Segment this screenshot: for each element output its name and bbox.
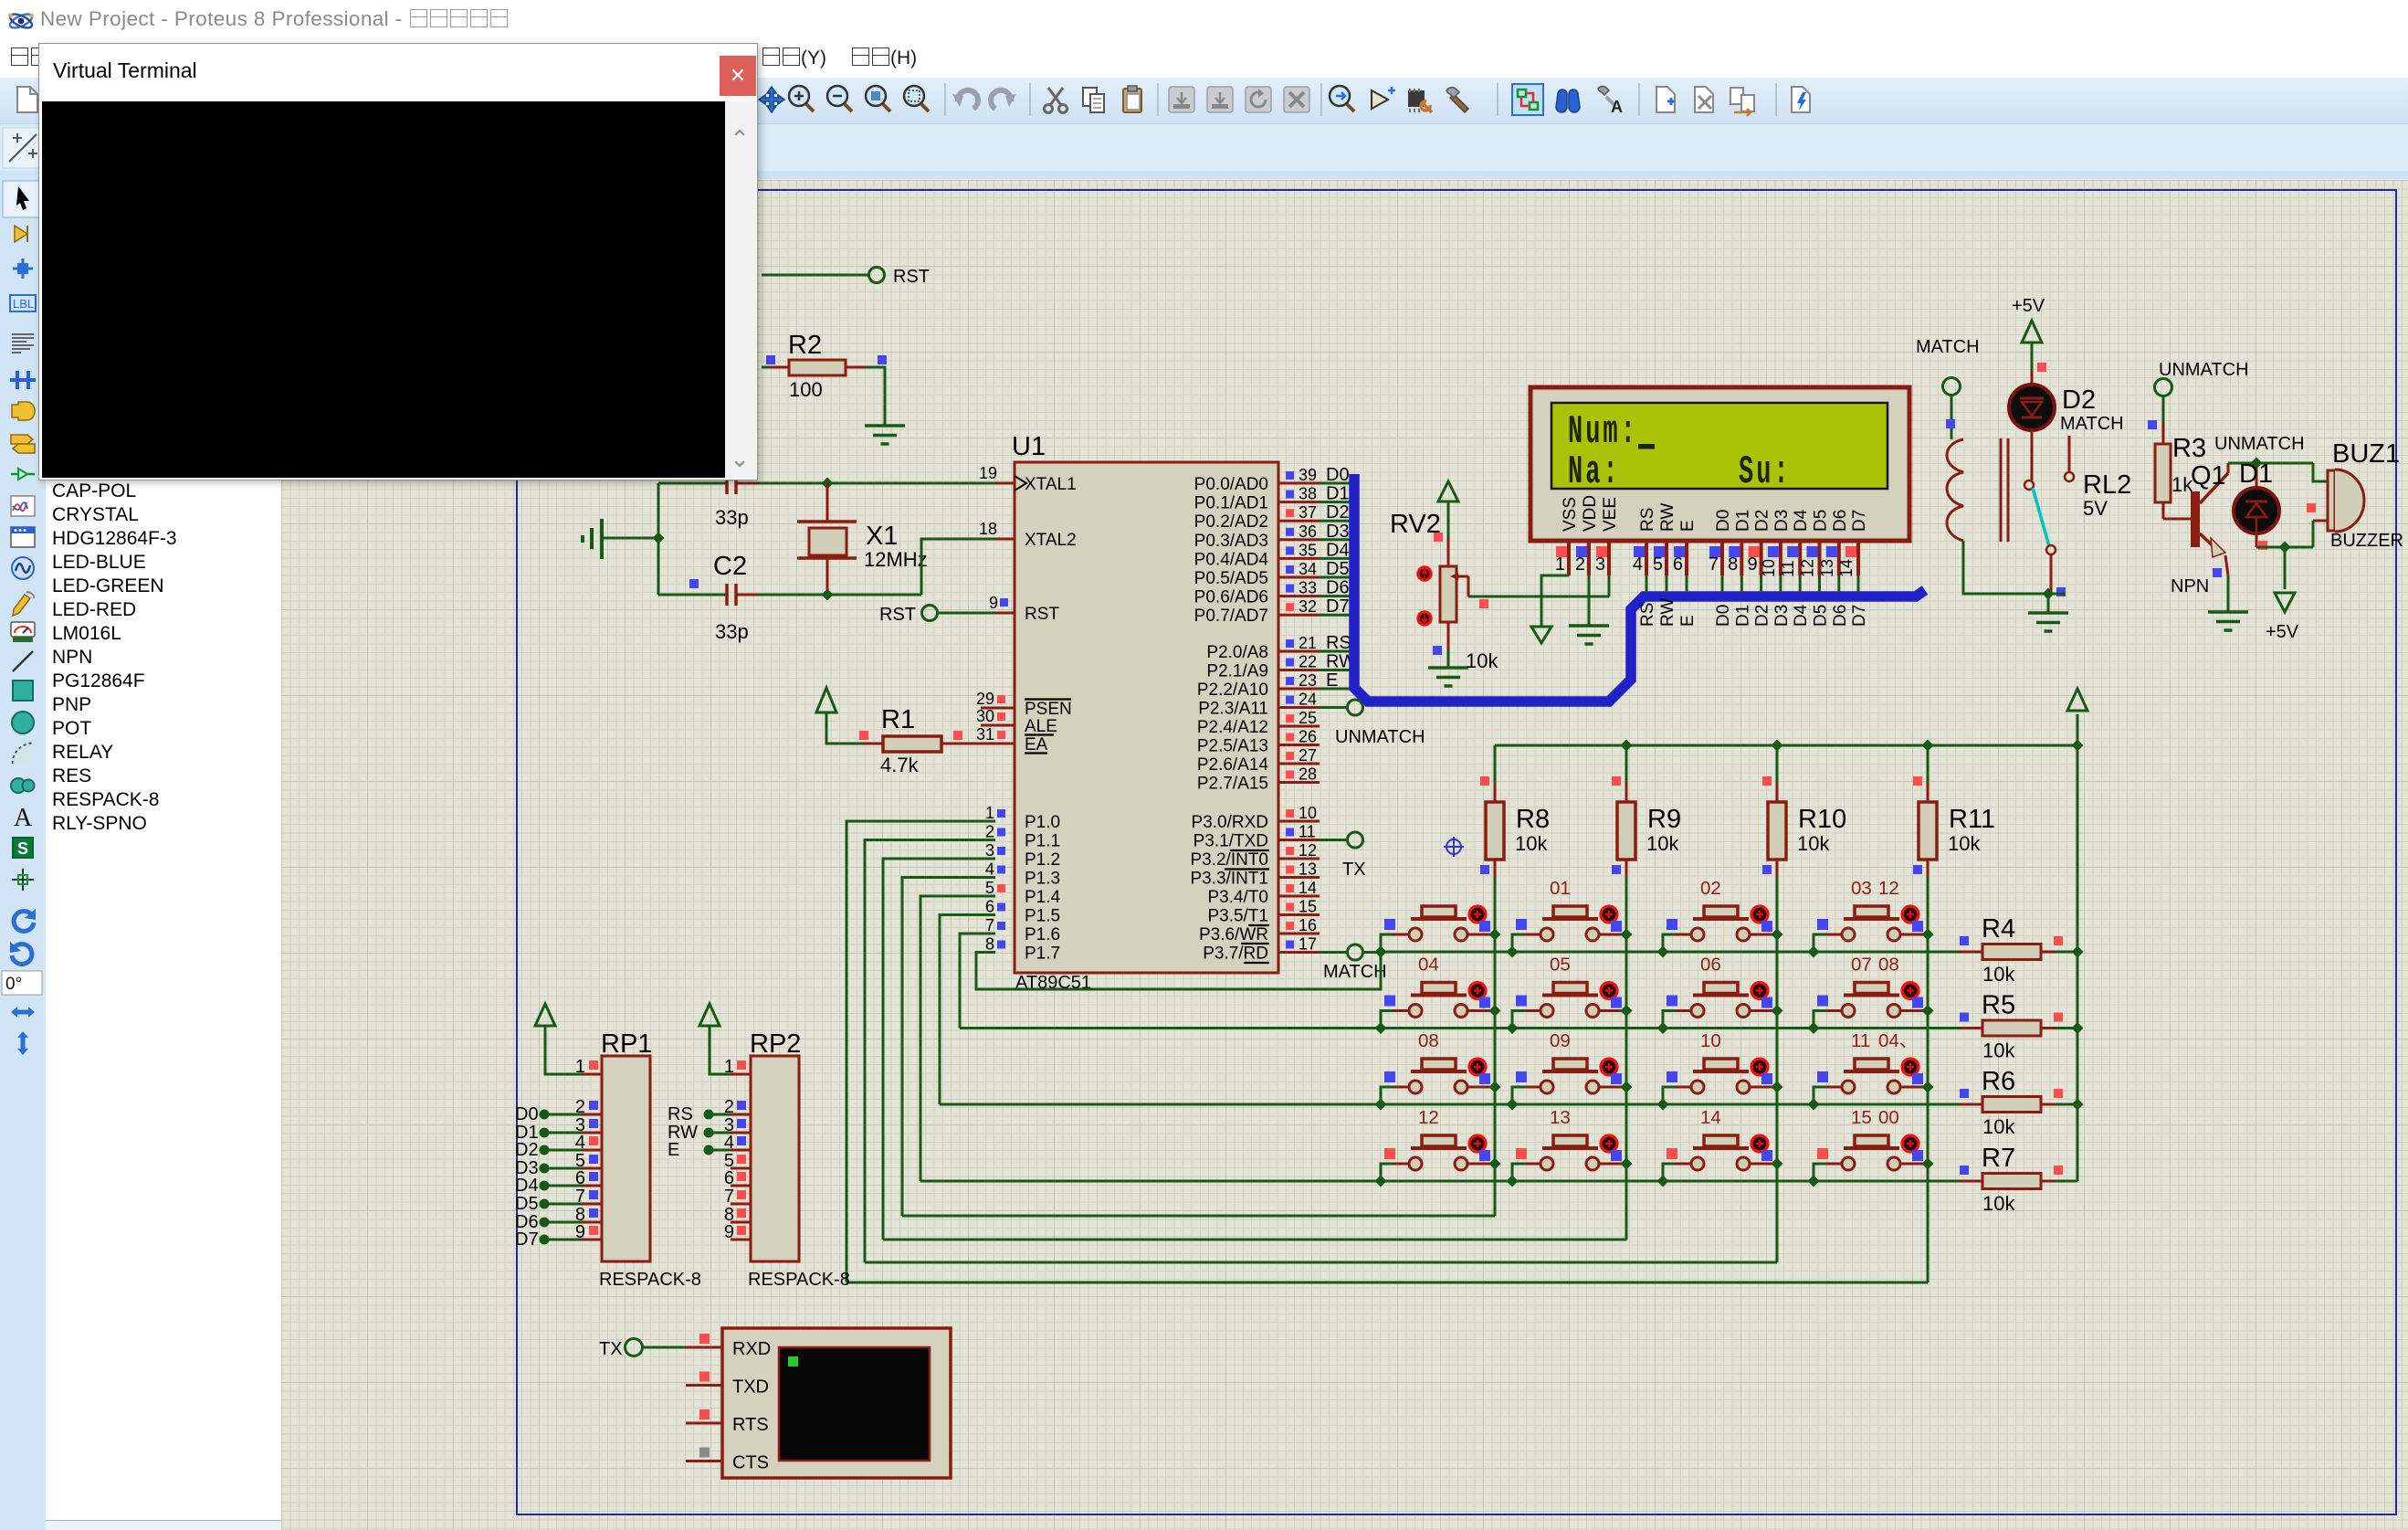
wire D2 to switch	[2031, 430, 2034, 480]
svg-text:D2: D2	[1753, 510, 1772, 532]
wire UNMATCH to R3	[2162, 396, 2165, 423]
virtual terminal screen	[779, 1347, 930, 1461]
svg-text:4.7k: 4.7k	[880, 754, 920, 776]
svg-text:05: 05	[1550, 955, 1571, 976]
svg-text:100: 100	[789, 378, 823, 401]
row wires	[1381, 951, 1960, 954]
svg-text:2: 2	[1575, 554, 1585, 575]
svg-text:13: 13	[1550, 1107, 1571, 1128]
svg-text:CTS: CTS	[732, 1453, 769, 1473]
svg-text:C2: C2	[713, 552, 747, 581]
svg-text:P3.3/INT1: P3.3/INT1	[1190, 870, 1268, 889]
wire P1.1 to column 3	[865, 840, 995, 1263]
svg-text:9: 9	[1747, 554, 1757, 575]
svg-text:TXD: TXD	[732, 1377, 769, 1398]
svg-text:X1: X1	[866, 522, 898, 551]
svg-text:10k: 10k	[1466, 649, 1498, 672]
svg-text:P2.6/A14: P2.6/A14	[1197, 755, 1269, 775]
potentiometer RV2	[1447, 538, 1450, 566]
svg-text:5: 5	[985, 879, 994, 897]
wire R2 right to ground	[846, 366, 867, 369]
svg-text:RS: RS	[1638, 603, 1657, 627]
svg-text:5: 5	[1653, 554, 1663, 575]
svg-text:D7: D7	[1850, 605, 1869, 627]
node r3c2	[1507, 1099, 1519, 1111]
svg-text:D4: D4	[1792, 604, 1811, 627]
wire R3 to Q1 base	[2162, 502, 2165, 519]
IC U1 AT89C51 body	[1015, 462, 1278, 973]
svg-text:11: 11	[1851, 1030, 1870, 1051]
button SW r3c4	[1814, 1059, 1928, 1104]
svg-text:ALE: ALE	[1025, 717, 1057, 736]
button SW r1c2	[1512, 906, 1626, 952]
column return wires	[902, 1215, 1495, 1218]
terminal TX	[1348, 832, 1363, 848]
svg-text:24: 24	[1299, 691, 1317, 709]
svg-text:10k: 10k	[1515, 832, 1548, 855]
svg-text:Q1: Q1	[2191, 461, 2226, 491]
svg-text:01: 01	[1550, 878, 1571, 899]
svg-text:A: A	[14, 804, 33, 832]
svg-text:5V: 5V	[2083, 497, 2108, 520]
wire Q1 emitter to ground	[2227, 575, 2230, 612]
button SW r2c4	[1814, 983, 1928, 1029]
resistor pack RP2 RESPACK-8	[751, 1056, 799, 1261]
resistor R5 10k	[1960, 1027, 1982, 1029]
capacitor C1 33p (top)	[658, 482, 727, 485]
svg-text:R10: R10	[1798, 805, 1846, 834]
svg-text:D7: D7	[515, 1229, 539, 1250]
svg-text:4: 4	[985, 860, 994, 879]
svg-text:33p: 33p	[715, 506, 749, 529]
wire P1.3 to column 1	[902, 878, 995, 1217]
node r1c1	[1375, 946, 1387, 958]
svg-text:XTAL1: XTAL1	[1025, 475, 1077, 494]
svg-text:P1.6: P1.6	[1025, 925, 1060, 944]
power rail top keypad	[1495, 744, 2077, 747]
svg-text:P0.5/AD5: P0.5/AD5	[1194, 569, 1268, 588]
svg-text:RW: RW	[1658, 503, 1677, 532]
resistor pack RP1 RESPACK-8	[602, 1056, 650, 1261]
node ground rail	[653, 533, 665, 544]
svg-text:D6: D6	[1831, 605, 1850, 627]
wire RST net	[762, 274, 868, 277]
node r1c2	[1507, 946, 1519, 958]
svg-text:P1.1: P1.1	[1025, 832, 1060, 851]
svg-text:P3.1/TXD: P3.1/TXD	[1193, 832, 1268, 851]
ground left (sideways)	[600, 519, 604, 559]
wire coil bottom	[1963, 541, 2048, 594]
svg-text:23: 23	[1299, 671, 1317, 690]
power +5V down arrow (D1)	[2275, 593, 2295, 612]
wire stubs P2 to bus	[1320, 650, 1350, 653]
svg-text:R2: R2	[788, 331, 822, 360]
svg-text:34: 34	[1299, 560, 1317, 578]
node r2c1	[1375, 1022, 1387, 1034]
button SW r2c3	[1663, 983, 1777, 1029]
svg-text:R5: R5	[1982, 991, 2015, 1020]
svg-text:8: 8	[1728, 554, 1738, 575]
svg-text:P1.3: P1.3	[1025, 870, 1060, 889]
svg-text:10k: 10k	[1982, 1115, 2015, 1138]
node r2c2	[1507, 1022, 1519, 1034]
crystal X1	[826, 483, 829, 522]
button SW r3c3	[1663, 1059, 1777, 1104]
svg-text:U1: U1	[1012, 432, 1046, 461]
svg-text:7: 7	[985, 916, 994, 934]
svg-text:RS: RS	[1638, 508, 1657, 532]
power +5V arrow (RV2)	[1438, 481, 1458, 501]
svg-text:RP2: RP2	[750, 1029, 801, 1059]
svg-text:10: 10	[1299, 804, 1317, 822]
svg-text:P3.7/RD: P3.7/RD	[1203, 944, 1268, 964]
svg-text:D2: D2	[1753, 605, 1772, 627]
pin 30 lead ALE	[981, 724, 1015, 727]
svg-text:9: 9	[989, 594, 998, 612]
svg-text:E: E	[1678, 615, 1698, 627]
node r4c2	[1507, 1176, 1519, 1187]
button SW r1c4	[1814, 906, 1928, 952]
svg-text:TX: TX	[1342, 860, 1366, 880]
node MATCH row	[1375, 946, 1387, 958]
terminal RST	[869, 268, 885, 283]
svg-text:36: 36	[1299, 522, 1317, 541]
svg-text:P3.6/WR: P3.6/WR	[1199, 925, 1268, 944]
svg-text:31: 31	[976, 725, 994, 744]
node r3c4	[1808, 1099, 1820, 1111]
LCD pin leads	[1567, 541, 1571, 575]
svg-text:04: 04	[1418, 955, 1439, 976]
wire VSS down	[1541, 575, 1569, 596]
svg-text:D2: D2	[2062, 385, 2096, 415]
node r2c3	[1657, 1022, 1669, 1034]
ground VDD	[1569, 624, 1609, 628]
svg-text:RESPACK-8: RESPACK-8	[599, 1270, 701, 1290]
power +5V arrow (RP1)	[535, 1004, 555, 1026]
svg-text:02: 02	[1700, 878, 1721, 899]
resistor R7 10k	[1960, 1180, 1982, 1183]
node r1c3	[1657, 946, 1669, 958]
svg-text:12: 12	[1418, 1107, 1439, 1128]
svg-text:07: 07	[1851, 955, 1872, 976]
pin 1 lead RP2	[731, 1073, 751, 1076]
svg-text:P0.2/AD2: P0.2/AD2	[1194, 512, 1268, 532]
wire wiper net	[1468, 596, 1609, 598]
node XTAL1 junction	[822, 478, 834, 490]
svg-text:E: E	[1678, 520, 1698, 532]
pin 1 lead RP1	[582, 1073, 602, 1076]
buzzer BUZ1	[2307, 503, 2316, 512]
svg-text:D5: D5	[515, 1194, 539, 1214]
svg-text:2: 2	[985, 823, 994, 841]
svg-text:R6: R6	[1982, 1067, 2015, 1096]
svg-text:18: 18	[979, 520, 997, 538]
ground RV2	[1428, 666, 1468, 670]
svg-text:P1.4: P1.4	[1025, 888, 1061, 907]
svg-text:R1: R1	[881, 705, 915, 734]
button SW r3c2	[1512, 1059, 1626, 1104]
svg-text:BUZZER: BUZZER	[2330, 531, 2403, 551]
svg-text:P3.2/INT0: P3.2/INT0	[1190, 850, 1268, 870]
svg-text:VEE: VEE	[1601, 497, 1620, 532]
svg-text:P2.0/A8: P2.0/A8	[1206, 643, 1268, 662]
button SW r2c1	[1381, 983, 1495, 1029]
LED D1	[2256, 467, 2258, 487]
svg-text:1: 1	[575, 1057, 585, 1077]
svg-text:12: 12	[1799, 559, 1817, 577]
svg-text:MATCH: MATCH	[2060, 414, 2124, 434]
svg-text:D5: D5	[1812, 605, 1831, 627]
node r3c1	[1375, 1099, 1387, 1111]
wire to XTAL2	[921, 539, 995, 595]
svg-text:A: A	[1611, 98, 1623, 116]
svg-text:30: 30	[976, 707, 994, 725]
svg-text:13: 13	[1818, 559, 1836, 577]
LCD pin squares	[1556, 546, 1567, 557]
svg-text:10k: 10k	[1948, 832, 1981, 855]
cursor crosshair	[1444, 837, 1464, 857]
svg-text:P1.5: P1.5	[1025, 907, 1060, 926]
svg-text:Na:: Na:	[1568, 449, 1621, 494]
wire R2 left	[762, 366, 769, 369]
svg-text:33p: 33p	[715, 620, 749, 643]
ground R2	[865, 424, 905, 427]
svg-text:RTS: RTS	[732, 1415, 769, 1435]
svg-text:P2.4/A12: P2.4/A12	[1197, 718, 1268, 737]
svg-text:RST: RST	[893, 267, 930, 287]
svg-text:TX: TX	[599, 1339, 623, 1359]
power rail right keypad	[2077, 745, 2079, 1181]
node r4c4	[1808, 1176, 1820, 1187]
resistor R1 4.7k	[863, 743, 883, 745]
button SW r4c2	[1512, 1135, 1626, 1181]
svg-text:RESPACK-8: RESPACK-8	[748, 1270, 850, 1290]
relay RL2 coil	[1947, 439, 1963, 541]
svg-text:D3: D3	[1772, 605, 1792, 627]
wire to +5V down arrow	[2284, 547, 2287, 589]
node r4c3	[1657, 1176, 1669, 1187]
svg-text:21: 21	[1299, 634, 1317, 652]
resistor R9 10k	[1625, 784, 1628, 802]
svg-text:12MHz: 12MHz	[864, 548, 928, 571]
svg-text:06: 06	[1700, 955, 1721, 976]
capacitor C2 33p (bottom)	[658, 594, 727, 596]
svg-text:RXD: RXD	[732, 1339, 771, 1359]
svg-text:22: 22	[1299, 653, 1317, 671]
svg-text:D6: D6	[1831, 510, 1850, 532]
svg-text:10k: 10k	[1646, 832, 1679, 855]
svg-text:P2.5/A13: P2.5/A13	[1197, 737, 1268, 756]
resistor R10 10k	[1776, 784, 1779, 802]
LCD screen	[1551, 403, 1887, 489]
svg-text:UNMATCH: UNMATCH	[2159, 360, 2249, 380]
svg-text:D7: D7	[1850, 510, 1869, 532]
svg-text:P3.5/T1: P3.5/T1	[1207, 907, 1268, 926]
svg-text:10: 10	[1700, 1030, 1721, 1051]
svg-text:28: 28	[1299, 765, 1317, 784]
svg-text:D0: D0	[1714, 605, 1733, 627]
node r4c1	[1375, 1176, 1387, 1187]
virtual terminal VT1 body	[722, 1328, 951, 1478]
svg-text:PSEN: PSEN	[1025, 700, 1072, 719]
svg-text:RS: RS	[668, 1104, 693, 1124]
wire P1.0 to column 4	[846, 821, 995, 1282]
svg-text:14: 14	[1837, 559, 1856, 577]
column wires	[1494, 745, 1497, 1216]
button SW r4c1	[1381, 1135, 1495, 1181]
svg-text:35: 35	[1299, 541, 1317, 559]
svg-text:LBL: LBL	[13, 297, 34, 311]
wire collector net	[2228, 462, 2313, 465]
wire pin11 to TX terminal	[1320, 839, 1348, 841]
svg-text:R3: R3	[2172, 434, 2206, 463]
pin stubs RP2 5-9	[731, 1167, 751, 1170]
svg-text:04、: 04、	[1878, 1030, 1918, 1051]
sheet border	[517, 190, 2396, 1514]
wire P1.5 to row 3	[940, 915, 995, 1105]
svg-text:P3.0/RXD: P3.0/RXD	[1192, 813, 1268, 832]
svg-text:17: 17	[1299, 935, 1317, 954]
resistor R6 10k	[1960, 1103, 1982, 1106]
terminal MATCH	[1348, 944, 1363, 960]
wire TX to RXD	[642, 1346, 686, 1349]
button SW r4c3	[1663, 1135, 1777, 1181]
LED D2	[2031, 370, 2034, 385]
wire P1.4 to row 4	[920, 896, 995, 1181]
svg-text:VDD: VDD	[1581, 495, 1600, 532]
wire P1.2 to column 2	[883, 859, 995, 1240]
svg-text:+5V: +5V	[2266, 622, 2299, 642]
svg-text:10: 10	[1760, 559, 1778, 577]
svg-text:MATCH: MATCH	[1323, 962, 1387, 982]
svg-text:BUZ1: BUZ1	[2332, 439, 2400, 469]
svg-text:37: 37	[1299, 503, 1317, 522]
node r1c4	[1808, 946, 1820, 958]
svg-text:UNMATCH: UNMATCH	[2214, 434, 2305, 454]
button SW r1c3	[1663, 906, 1777, 952]
power down arrow (VEE)	[1540, 596, 1543, 627]
svg-text:12: 12	[1878, 878, 1899, 899]
svg-text:09: 09	[1550, 1030, 1571, 1051]
svg-text:10k: 10k	[1982, 1192, 2015, 1215]
button SW r4c4	[1814, 1135, 1928, 1181]
svg-text:D4: D4	[1792, 509, 1811, 532]
svg-text:08: 08	[1418, 1030, 1439, 1051]
node r2c4	[1808, 1022, 1820, 1034]
svg-text:P2.3/A11: P2.3/A11	[1198, 700, 1268, 719]
svg-text:P2.7/A15: P2.7/A15	[1197, 775, 1268, 794]
svg-text:6: 6	[1673, 554, 1683, 575]
pin leads right P3	[1278, 820, 1320, 823]
node C2 junction	[822, 589, 834, 601]
wire VEE down	[1608, 575, 1611, 596]
wire pin17 to MATCH terminal	[1320, 951, 1348, 954]
svg-text:P0.7/AD7: P0.7/AD7	[1194, 607, 1268, 626]
svg-text:3: 3	[985, 841, 994, 860]
svg-text:25: 25	[1299, 709, 1317, 727]
bus LCD data	[1354, 474, 1925, 702]
svg-text:13: 13	[1299, 860, 1317, 879]
svg-text:39: 39	[1299, 466, 1317, 484]
power +5V arrow (R1)	[816, 688, 836, 712]
svg-text:P2.1/A9: P2.1/A9	[1206, 662, 1268, 681]
ground Q1	[2208, 610, 2248, 614]
svg-text:RST: RST	[1025, 605, 1059, 624]
resistor R2	[789, 360, 846, 375]
svg-text:10k: 10k	[1982, 1039, 2015, 1062]
button SW r2c2	[1512, 983, 1626, 1029]
svg-text:P1.2: P1.2	[1025, 850, 1060, 870]
wire P1.7 to row 1	[976, 952, 1381, 989]
svg-text:7: 7	[1709, 554, 1719, 575]
svg-text:16: 16	[1299, 916, 1317, 934]
svg-text:12: 12	[1299, 841, 1317, 860]
wire P1.6 to row 2	[960, 934, 995, 1029]
svg-text:08: 08	[1878, 955, 1899, 976]
svg-text:D1: D1	[1733, 510, 1752, 532]
pin leads right P0	[1278, 482, 1320, 485]
pin 31 lead EA	[995, 743, 1015, 745]
svg-text:P0.4/AD4: P0.4/AD4	[1194, 550, 1269, 569]
svg-text:15: 15	[1299, 898, 1317, 916]
wire stubs P0 to bus	[1320, 482, 1350, 485]
resistor R11 10k	[1927, 784, 1930, 802]
node r3c3	[1657, 1099, 1669, 1111]
svg-text:XTAL2: XTAL2	[1025, 531, 1077, 550]
wire crystal rail	[657, 483, 660, 595]
svg-text:00: 00	[1878, 1107, 1899, 1128]
svg-text:26: 26	[1299, 728, 1317, 746]
svg-text:19: 19	[979, 464, 997, 482]
svg-text:D1: D1	[1733, 605, 1752, 627]
svg-text:P1.0: P1.0	[1025, 813, 1060, 832]
svg-text:3: 3	[1595, 554, 1605, 575]
wire pin24 to UNMATCH terminal	[1320, 706, 1348, 709]
svg-text:33: 33	[1299, 579, 1317, 597]
svg-text:R7: R7	[1982, 1144, 2015, 1173]
svg-text:P3.4/T0: P3.4/T0	[1207, 888, 1268, 907]
svg-text:10k: 10k	[1797, 832, 1830, 855]
svg-text:1: 1	[1555, 554, 1565, 575]
LCD stubs to bus	[1646, 575, 1648, 592]
svg-text:14: 14	[1299, 879, 1317, 897]
svg-text:11: 11	[1779, 560, 1797, 577]
svg-text:P2.2/A10: P2.2/A10	[1197, 681, 1268, 700]
svg-text:P0.0/AD0: P0.0/AD0	[1194, 475, 1268, 494]
resistor R4 10k	[1960, 951, 1982, 954]
svg-text:S: S	[17, 839, 28, 858]
svg-text:R11: R11	[1949, 805, 1995, 834]
svg-text:29: 29	[976, 690, 994, 708]
svg-text:P1.7: P1.7	[1025, 944, 1060, 964]
power +5V arrow (RP2)	[699, 1004, 720, 1026]
pin 19 lead	[995, 482, 1015, 485]
svg-text:32: 32	[1299, 597, 1317, 616]
svg-text:RP1: RP1	[601, 1029, 652, 1059]
svg-text:R4: R4	[1982, 914, 2015, 944]
wire VDD to ground	[1588, 575, 1591, 626]
svg-text:P0.3/AD3: P0.3/AD3	[1194, 532, 1268, 551]
svg-text:Su:: Su:	[1739, 449, 1792, 494]
svg-text:03: 03	[1851, 878, 1872, 899]
LCD LCD1 LM016L body	[1530, 387, 1909, 541]
svg-text:P0.1/AD1: P0.1/AD1	[1194, 494, 1268, 513]
svg-text:14: 14	[1700, 1107, 1721, 1128]
svg-text:MATCH: MATCH	[1916, 337, 1980, 357]
svg-text:D4: D4	[515, 1176, 539, 1196]
pin 29 lead PSEN	[981, 707, 1015, 710]
svg-text:4: 4	[1633, 554, 1643, 575]
